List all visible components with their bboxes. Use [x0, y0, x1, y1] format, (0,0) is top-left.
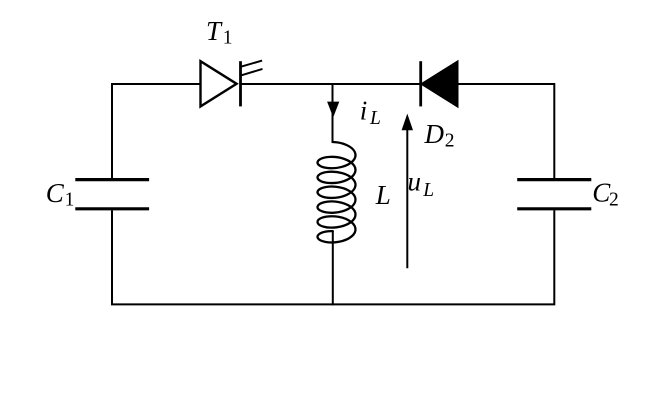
current arrow iL head	[327, 102, 339, 118]
svg-text:T: T	[206, 16, 223, 46]
wire top-left segment with left corner	[112, 84, 201, 178]
inductor L coil	[317, 142, 355, 242]
thyristor T1 triangle	[201, 61, 237, 106]
diode D2 filled triangle	[422, 62, 458, 107]
wire top-middle segment	[241, 83, 421, 85]
capacitor C2 bottom plate	[517, 207, 591, 210]
wire top-right segment with right corner	[458, 84, 555, 178]
svg-text:C: C	[46, 178, 65, 208]
svg-text:2: 2	[609, 189, 619, 210]
diode D2 cathode bar	[419, 61, 422, 106]
thyristor T1 gate line upper	[241, 61, 263, 67]
thyristor T1 cathode bar	[239, 61, 242, 106]
capacitor C2 top plate	[517, 178, 591, 181]
svg-text:L: L	[369, 108, 381, 129]
voltage arrow uL line	[406, 127, 408, 268]
svg-text:i: i	[360, 96, 368, 126]
voltage arrow uL head	[402, 114, 413, 131]
svg-text:D: D	[424, 119, 445, 149]
svg-text:L: L	[375, 180, 391, 210]
svg-text:1: 1	[65, 190, 75, 211]
svg-text:L: L	[422, 180, 434, 201]
svg-text:u: u	[408, 167, 422, 197]
capacitor C1 bottom plate	[75, 207, 149, 210]
svg-text:1: 1	[223, 28, 233, 49]
wire bottom with both corners	[112, 210, 554, 304]
wire middle vertical top	[332, 83, 334, 143]
wire middle vertical bottom	[332, 231, 334, 306]
capacitor C1 top plate	[75, 178, 149, 181]
svg-text:2: 2	[445, 131, 455, 152]
thyristor T1 gate line lower	[241, 69, 263, 76]
